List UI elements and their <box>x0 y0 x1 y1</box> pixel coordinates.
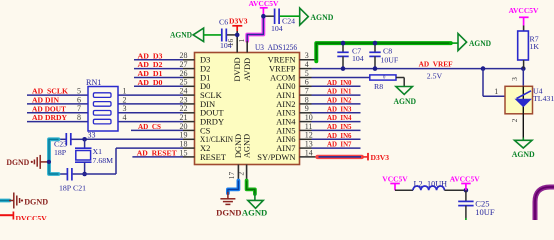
svg-text:26: 26 <box>180 69 188 78</box>
svg-text:10UF: 10UF <box>475 207 495 217</box>
svg-text:AD IN0: AD IN0 <box>327 78 352 87</box>
svg-text:AD IN4: AD IN4 <box>327 113 352 122</box>
svg-text:AD RESET: AD RESET <box>137 149 178 158</box>
svg-text:C21: C21 <box>73 184 86 193</box>
svg-text:10UH: 10UH <box>427 180 447 189</box>
svg-text:AD D2: AD D2 <box>138 60 163 69</box>
svg-text:1K: 1K <box>530 42 540 51</box>
svg-text:RESET: RESET <box>200 152 227 162</box>
svg-text:DGND: DGND <box>6 158 29 167</box>
svg-text:4: 4 <box>123 113 127 122</box>
svg-text:5: 5 <box>77 87 81 96</box>
svg-text:AD IN6: AD IN6 <box>327 131 352 140</box>
svg-text:D3V3: D3V3 <box>229 17 248 26</box>
svg-text:6: 6 <box>77 95 81 104</box>
svg-text:23: 23 <box>180 95 188 104</box>
svg-text:VCC5V: VCC5V <box>382 174 408 183</box>
svg-text:D3V3: D3V3 <box>371 153 390 162</box>
svg-text:104: 104 <box>352 54 364 63</box>
svg-text:2.5V: 2.5V <box>427 71 443 80</box>
svg-text:AGND: AGND <box>469 39 491 48</box>
svg-text:DVDD: DVDD <box>233 57 242 81</box>
svg-text:AVDD: AVDD <box>243 58 252 81</box>
svg-text:AD DOUT: AD DOUT <box>32 104 67 113</box>
svg-text:AD IN2: AD IN2 <box>327 96 352 105</box>
svg-text:28: 28 <box>180 51 188 60</box>
svg-text:U3 ADS1256: U3 ADS1256 <box>255 43 297 52</box>
svg-text:27: 27 <box>180 60 188 69</box>
svg-text:21: 21 <box>180 113 188 122</box>
svg-text:AGND: AGND <box>242 134 251 158</box>
svg-text:1: 1 <box>237 38 246 42</box>
svg-text:X1: X1 <box>93 147 103 156</box>
svg-text:AD IN5: AD IN5 <box>327 122 352 131</box>
svg-text:AD D0: AD D0 <box>138 78 163 87</box>
svg-text:4: 4 <box>305 60 309 69</box>
svg-text:AD SCLK: AD SCLK <box>32 87 68 96</box>
svg-text:2: 2 <box>510 118 519 122</box>
svg-text:17: 17 <box>227 172 236 180</box>
svg-text:19: 19 <box>180 131 188 140</box>
svg-text:AD D3: AD D3 <box>138 51 163 60</box>
svg-text:3: 3 <box>305 51 309 60</box>
svg-text:AGND: AGND <box>310 13 333 22</box>
svg-text:16: 16 <box>226 39 235 47</box>
svg-text:AD D1: AD D1 <box>138 69 163 78</box>
svg-text:6: 6 <box>305 78 309 87</box>
svg-text:1: 1 <box>123 87 127 96</box>
svg-text:7.68M: 7.68M <box>93 156 114 165</box>
svg-text:7: 7 <box>77 104 81 113</box>
svg-text:104: 104 <box>271 24 283 33</box>
svg-text:DVCC5V: DVCC5V <box>16 214 48 220</box>
svg-text:2: 2 <box>123 95 127 104</box>
svg-text:18: 18 <box>180 140 188 149</box>
svg-text:24: 24 <box>180 87 188 96</box>
svg-text:AD IN1: AD IN1 <box>327 87 352 96</box>
svg-text:8: 8 <box>77 113 81 122</box>
svg-text:L2: L2 <box>414 180 423 189</box>
svg-text:AD DRDY: AD DRDY <box>32 113 67 122</box>
svg-text:DGND: DGND <box>216 209 241 218</box>
svg-text:3: 3 <box>510 77 519 81</box>
svg-text:3: 3 <box>123 104 127 113</box>
svg-text:15: 15 <box>180 148 188 157</box>
svg-text:C6: C6 <box>219 17 228 26</box>
svg-text:AVCC5V: AVCC5V <box>249 0 279 8</box>
svg-text:AD CS: AD CS <box>138 122 161 131</box>
svg-text:AGND: AGND <box>394 97 417 106</box>
svg-text:14: 14 <box>305 148 313 157</box>
svg-text:10: 10 <box>305 113 313 122</box>
svg-text:AVCC5V: AVCC5V <box>450 174 480 183</box>
svg-text:2: 2 <box>236 172 245 176</box>
svg-text:12: 12 <box>305 131 313 140</box>
svg-text:AVCC5V: AVCC5V <box>509 6 539 15</box>
svg-text:SY/PDWN: SY/PDWN <box>257 152 295 162</box>
svg-text:C8: C8 <box>383 47 392 56</box>
svg-text:9: 9 <box>305 104 309 113</box>
svg-text:AD IN3: AD IN3 <box>327 104 352 113</box>
svg-text:RN1: RN1 <box>86 78 101 87</box>
svg-text:22: 22 <box>180 104 188 113</box>
svg-text:5: 5 <box>305 69 309 78</box>
svg-text:1: 1 <box>494 87 498 96</box>
svg-text:DGND: DGND <box>24 197 48 206</box>
svg-text:AGND: AGND <box>512 150 535 159</box>
svg-text:11: 11 <box>305 122 313 131</box>
svg-text:10UF: 10UF <box>381 55 399 64</box>
svg-text:C24: C24 <box>282 17 295 26</box>
svg-text:8: 8 <box>305 95 309 104</box>
svg-text:R8: R8 <box>374 82 383 91</box>
svg-text:TL431: TL431 <box>533 94 554 103</box>
svg-text:20: 20 <box>180 122 188 131</box>
svg-text:33: 33 <box>88 131 96 140</box>
svg-text:AGND: AGND <box>242 209 267 218</box>
svg-text:25: 25 <box>180 78 188 87</box>
svg-text:13: 13 <box>305 140 313 149</box>
svg-text:18P: 18P <box>54 148 67 157</box>
svg-text:AD IN7: AD IN7 <box>327 140 352 149</box>
svg-text:AGND: AGND <box>170 30 192 39</box>
svg-text:AD VREF: AD VREF <box>419 60 453 69</box>
svg-text:18P: 18P <box>59 184 72 193</box>
svg-text:AD DIN: AD DIN <box>32 96 59 105</box>
svg-text:7: 7 <box>305 87 309 96</box>
